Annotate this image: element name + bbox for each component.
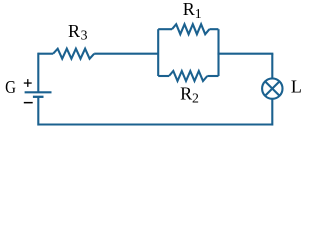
battery G negative plate (short) — [33, 96, 44, 98]
lamp X stroke 2 — [265, 81, 279, 95]
wire: bottom-left corner up to battery negative plate — [37, 98, 39, 125]
node: parallel box left bar — [157, 29, 159, 76]
svg-text:G: G — [5, 77, 16, 98]
lamp L circle — [262, 78, 282, 98]
wire: parallel box right bar to top-right corner — [219, 53, 273, 55]
battery + sign — [24, 79, 32, 87]
battery - sign — [24, 102, 33, 104]
resistor R1 — [172, 24, 209, 34]
wire: lamp bottom down to bottom-right corner — [271, 99, 273, 125]
lamp X stroke 1 — [265, 81, 279, 95]
wire: R3 to parallel box left node — [94, 53, 158, 55]
battery G positive plate (long) — [25, 91, 52, 93]
svg-text:R: R — [180, 84, 192, 104]
resistor R2 — [169, 71, 207, 81]
wire: top branch left lead — [158, 28, 172, 30]
wire: bottom branch right lead — [207, 75, 218, 77]
wire: bottom branch left lead — [158, 75, 169, 77]
svg-text:L: L — [291, 76, 302, 96]
node: parallel box right bar — [217, 29, 219, 76]
wire: left vertical, battery positive plate up to top-left corner — [37, 54, 39, 92]
svg-text:3: 3 — [81, 28, 88, 43]
wire: top-left corner to R3 left lead — [38, 53, 53, 55]
resistor R3 — [53, 49, 94, 59]
svg-text:R: R — [183, 0, 195, 19]
svg-text:2: 2 — [192, 90, 199, 105]
wire: top branch right lead — [209, 28, 218, 30]
wire: top-right corner down to lamp top — [271, 54, 273, 78]
svg-text:R: R — [68, 21, 80, 41]
svg-text:1: 1 — [195, 6, 202, 21]
wire: bottom return wire — [38, 123, 272, 125]
